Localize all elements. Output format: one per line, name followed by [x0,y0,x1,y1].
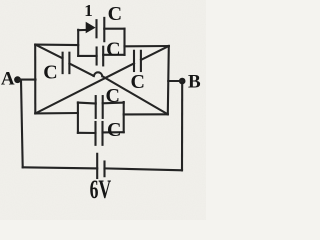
capacitor C1 right plate [103,18,105,41]
crossover hop on diagonal [94,72,103,76]
svg-text:C: C [107,119,121,141]
wire bottom lower branch right [103,131,124,133]
wire top branch right [104,28,124,30]
wire bottom left to battery [23,167,98,168]
diagonal BL-TR lower segment [35,63,134,113]
diagonal TL-BR middle segment to hop [70,64,94,77]
wire right side up to node B [181,81,183,170]
battery negative plate (short) [103,162,105,177]
wire bump branch right [103,54,124,56]
svg-text:6V: 6V [90,175,112,204]
box left edge [34,45,36,114]
bottom structure right leg [123,102,125,132]
top structure left leg [77,30,79,56]
box bottom edge right part [124,113,168,115]
left diagonal capacitor left plate [62,53,64,73]
box bottom edge left part [35,112,78,115]
box right edge [168,46,169,114]
bottom lower capacitor right plate [101,122,103,145]
bottom structure left leg [77,102,79,132]
svg-text:C: C [43,62,57,84]
bottom upper capacitor right plate [102,96,104,118]
svg-text:A: A [1,69,15,90]
svg-text:C: C [130,71,144,93]
diagonal TL-BR upper segment [36,45,63,59]
wire A down to bottom loop [21,80,23,167]
top structure right leg [123,29,125,55]
wire bottom upper branch left [78,102,96,105]
node B terminal dot [179,78,186,85]
svg-text:C: C [108,3,122,25]
wire top branch left [78,29,86,31]
arrow marker of capacitor 1 [86,22,96,33]
bump capacitor left plate [96,48,98,65]
wire bottom upper branch right [103,102,124,105]
right diagonal capacitor right plate [140,51,142,71]
bottom upper capacitor left plate [95,96,97,118]
right diagonal capacitor left plate [133,51,135,71]
wire B to box right edge [168,80,182,82]
wire A to box left edge [19,79,36,81]
svg-text:1: 1 [84,1,93,20]
bottom lower capacitor left plate [94,122,96,145]
left diagonal capacitor right plate [68,53,70,73]
svg-text:C: C [106,39,120,61]
box top edge right part [125,45,169,47]
wire bump branch left [78,55,96,57]
svg-text:B: B [188,72,201,93]
svg-text:C: C [105,85,119,107]
bump capacitor right plate [102,47,104,66]
node A terminal dot [14,76,21,83]
diagonal BL-TR upper segment [141,46,169,60]
wire bottom lower branch left [78,132,96,134]
battery positive plate (long) [96,154,98,178]
diagonal TL-BR lower segment [102,76,167,114]
box top edge left part [35,44,78,47]
wire battery to bottom right corner [105,168,183,170]
capacitor C1 left plate [95,20,97,37]
